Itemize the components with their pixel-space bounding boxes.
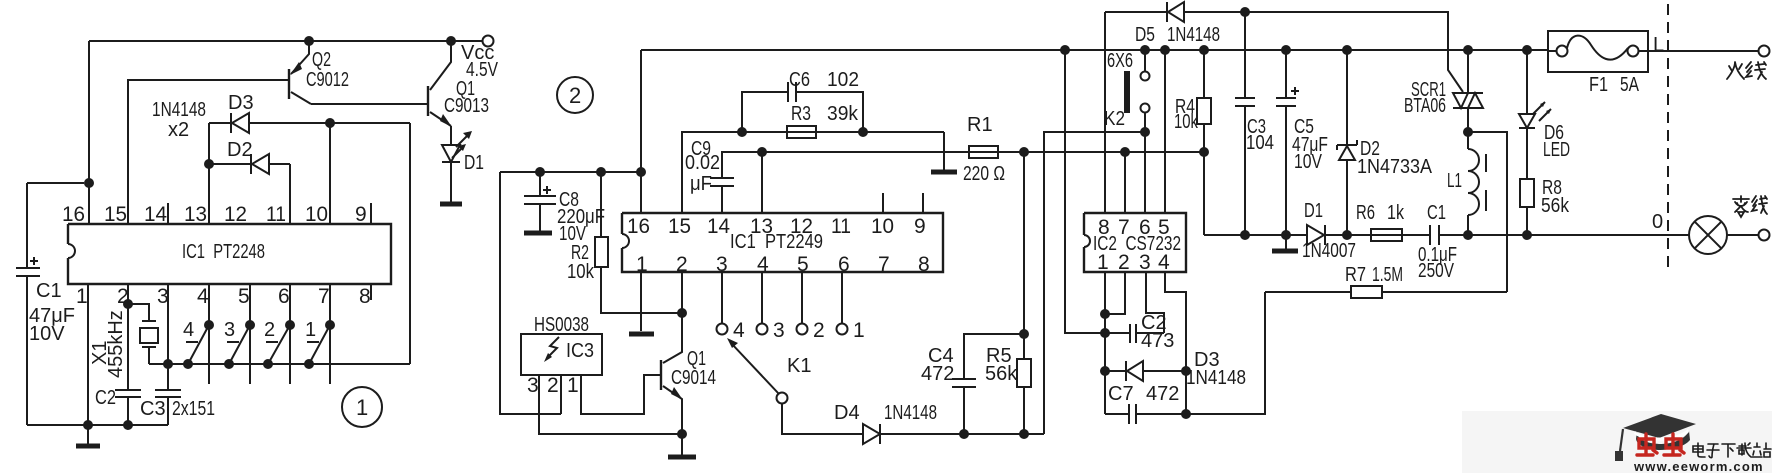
junction L1 bottom <box>1463 230 1473 240</box>
pin 14 stub <box>167 203 169 224</box>
svg-text:1N4733A: 1N4733A <box>1357 156 1433 178</box>
fuse F1 5A <box>1522 31 1648 96</box>
svg-text:7: 7 <box>1118 216 1130 239</box>
wire pin1 down <box>87 284 89 425</box>
junction R5 top <box>1019 147 1029 157</box>
junction pin1/D3 <box>1100 366 1110 376</box>
svg-text:7: 7 <box>878 253 890 276</box>
switch 2 <box>263 319 295 369</box>
wire pin3 drop <box>1146 272 1164 333</box>
svg-text:220 Ω: 220 Ω <box>963 163 1005 185</box>
svg-text:BTA06: BTA06 <box>1404 95 1446 117</box>
junction Q1 collector <box>446 36 456 46</box>
svg-text:x2: x2 <box>168 119 189 141</box>
wire pin4 drop <box>1165 272 1186 414</box>
pin 9 stub <box>922 193 924 213</box>
resistor R5 56k <box>985 152 1031 434</box>
resistor R3 39k <box>787 103 859 138</box>
resistor R8 56k <box>1520 177 1570 235</box>
svg-text:LED: LED <box>1543 139 1570 161</box>
junction K2 bottom <box>1140 127 1150 137</box>
svg-text:K2: K2 <box>1104 108 1125 130</box>
svg-text:3: 3 <box>773 319 785 342</box>
svg-text:472: 472 <box>1146 383 1179 405</box>
junction pin3/common <box>163 359 173 369</box>
switch K1 <box>727 338 811 404</box>
wire pin4 to terminal 3 <box>761 272 763 324</box>
svg-text:56k: 56k <box>985 363 1018 385</box>
label 零线 (neutral wire) <box>1733 196 1767 217</box>
capacitor C7 472 <box>1105 383 1265 424</box>
junction pin1/C2 <box>1100 328 1110 338</box>
wire pin11 riser <box>289 164 291 224</box>
junction pin13 <box>757 147 767 157</box>
svg-text:15: 15 <box>668 215 691 238</box>
wire bottom rail (transmitter) <box>27 424 168 426</box>
LED D6 <box>1519 50 1570 179</box>
wire pin2 drop <box>1105 272 1125 314</box>
wire IC3 pin2 left <box>560 375 562 414</box>
wire pin5 to terminal 2 <box>801 272 803 324</box>
junction C4 bottom <box>959 429 969 439</box>
svg-text:2: 2 <box>569 83 581 108</box>
inductor L1 <box>1447 132 1486 235</box>
diode D3 1N4148 <box>1105 349 1246 389</box>
junction pin2/R2 <box>677 308 687 318</box>
capacitor C2 473 <box>1105 312 1174 352</box>
svg-text:473: 473 <box>1141 330 1174 352</box>
junction C3 bottom <box>1240 230 1250 240</box>
wire D5 net <box>1105 12 1463 92</box>
wire IC3 pin3 to ground net <box>539 375 682 434</box>
svg-text:3: 3 <box>224 319 235 341</box>
wire pin6 down <box>289 284 291 384</box>
capacitor C2 <box>95 387 141 425</box>
capacitor C4 472 <box>921 334 1024 434</box>
svg-text:2: 2 <box>813 319 825 342</box>
circled 2 <box>557 77 593 113</box>
wire pin16 riser <box>88 41 90 224</box>
terminal 4 <box>717 324 728 335</box>
svg-text:11: 11 <box>266 203 286 226</box>
svg-text:1N4148: 1N4148 <box>152 99 206 121</box>
wire main top rail <box>641 49 1548 51</box>
svg-text:104: 104 <box>1246 132 1274 154</box>
terminal 1 <box>837 324 848 335</box>
svg-text:1: 1 <box>356 395 368 420</box>
wire K2 to D4 net riser <box>1044 132 1145 434</box>
svg-text:6: 6 <box>1139 216 1151 239</box>
LED D1 <box>442 126 484 202</box>
wire switch common <box>149 363 410 365</box>
ground (transmitter) <box>87 425 89 444</box>
svg-text:F1: F1 <box>1589 74 1608 96</box>
wire pin1 down to ground <box>640 272 642 331</box>
svg-text:4: 4 <box>183 319 194 341</box>
dashed boundary <box>1667 4 1669 272</box>
wire pin5 riser <box>1164 50 1166 213</box>
ground (Q1 C9014) <box>681 434 683 455</box>
svg-text:1: 1 <box>76 285 88 308</box>
svg-text:μF: μF <box>690 173 712 195</box>
switch 3 <box>224 319 255 369</box>
ground (C8) <box>524 231 552 236</box>
wire triac junction to R7 <box>1468 132 1507 292</box>
svg-text:10V: 10V <box>1294 151 1323 173</box>
svg-text:3: 3 <box>157 285 169 308</box>
svg-text:13: 13 <box>750 215 773 238</box>
junction K2 top <box>1140 45 1150 55</box>
svg-text:15: 15 <box>104 203 127 226</box>
svg-text:13: 13 <box>184 203 207 226</box>
svg-text:10: 10 <box>305 203 328 226</box>
svg-text:3: 3 <box>527 374 539 397</box>
svg-text:2: 2 <box>264 319 275 341</box>
wire lamp to neutral terminal <box>1727 234 1758 236</box>
key K2 6X6 <box>1104 50 1150 132</box>
wire fuse to L terminal <box>1648 50 1758 52</box>
svg-text:7: 7 <box>318 285 330 308</box>
wire pin7 down <box>329 284 331 384</box>
wire mains dc rail <box>1204 234 1689 236</box>
capacitor C8 <box>524 167 605 245</box>
junction pin16 <box>636 167 646 177</box>
svg-text:9: 9 <box>914 215 926 238</box>
junction pin1/ground <box>83 420 93 430</box>
svg-text:1: 1 <box>1097 251 1109 274</box>
wire pin7 riser <box>1124 152 1126 213</box>
svg-text:1N4148: 1N4148 <box>1167 24 1220 46</box>
junction C2 net top <box>1060 45 1070 55</box>
resistor R6 1k <box>1356 202 1405 241</box>
svg-text:5A: 5A <box>1620 74 1640 96</box>
diode D4 1N4148 <box>834 402 1044 444</box>
wire pin4 down <box>208 284 210 384</box>
terminal 3 <box>757 324 768 335</box>
wire pin3 to terminal 4 <box>721 272 723 324</box>
svg-text:D5: D5 <box>1135 24 1155 46</box>
svg-text:IC3: IC3 <box>566 340 594 362</box>
junction R5 bottom <box>1019 429 1029 439</box>
svg-text:8: 8 <box>918 253 930 276</box>
diode D3 1N4148 <box>209 92 410 133</box>
svg-text:C2: C2 <box>95 387 116 409</box>
wire pin13 riser <box>208 123 210 224</box>
wire left riser to IC3 pin2 <box>500 172 561 414</box>
ground (pin1 PT2249) <box>629 332 654 337</box>
svg-text:1: 1 <box>853 319 865 342</box>
terminal neutral <box>1759 230 1770 241</box>
svg-text:IC1 PT2248: IC1 PT2248 <box>182 241 265 263</box>
capacitor C1 0.1uF 250V <box>1418 202 1457 282</box>
svg-text:12: 12 <box>790 215 813 238</box>
svg-text:102: 102 <box>827 69 859 91</box>
junction Q1 emitter/ground <box>677 429 687 439</box>
switch 4 <box>183 319 214 369</box>
watermark strip <box>1462 411 1772 473</box>
svg-text:2: 2 <box>1118 251 1130 274</box>
svg-text:R3: R3 <box>791 103 811 125</box>
capacitor C6 102 <box>737 69 868 137</box>
wire 152 rail <box>762 151 1205 153</box>
capacitor C3 104 <box>1235 12 1274 235</box>
wire R7 left riser <box>1186 292 1265 414</box>
svg-text:D1: D1 <box>464 152 484 174</box>
wire pin15 riser to R3/C6 <box>682 132 944 213</box>
pin 8 stub <box>370 284 372 300</box>
svg-text:39k: 39k <box>827 103 859 125</box>
pin 9 stub <box>370 203 372 224</box>
svg-text:4: 4 <box>197 285 209 308</box>
wire pin2 down <box>127 284 129 390</box>
svg-text:C9013: C9013 <box>444 95 489 117</box>
svg-text:C1: C1 <box>36 280 62 302</box>
terminal live <box>1759 46 1770 57</box>
svg-text:R7: R7 <box>1345 264 1366 286</box>
transistor Q2 C9012 <box>289 41 349 104</box>
terminal 2 <box>797 324 808 335</box>
wire pin13 riser <box>761 152 763 213</box>
triac SCR1 BTA06 <box>1404 45 1483 132</box>
svg-text:5: 5 <box>238 285 250 308</box>
svg-text:0: 0 <box>1652 211 1663 233</box>
svg-text:C1: C1 <box>1427 202 1446 224</box>
svg-text:1: 1 <box>305 319 316 341</box>
capacitor C1 <box>16 183 84 425</box>
circled 1 <box>342 387 382 427</box>
svg-text:14: 14 <box>144 203 167 226</box>
svg-text:10k: 10k <box>567 261 595 283</box>
transistor Q1 C9014 <box>661 313 716 434</box>
svg-text:9: 9 <box>355 203 367 226</box>
svg-text:C6: C6 <box>789 69 810 91</box>
svg-text:1N4148: 1N4148 <box>884 402 937 424</box>
junction pin1/pin2 <box>1100 309 1110 319</box>
wire pin15 riser <box>128 80 289 224</box>
resistor R7 1.5M <box>1265 264 1507 298</box>
junction D3 right <box>1181 366 1191 376</box>
pin 10 stub <box>882 193 884 213</box>
svg-text:L1: L1 <box>1447 170 1462 192</box>
wire pin16 riser <box>640 50 642 213</box>
svg-text:1: 1 <box>567 374 579 397</box>
wire pin8 riser <box>1104 12 1106 213</box>
IC2 CS7232 body <box>1084 213 1186 272</box>
svg-text:D3: D3 <box>228 92 254 114</box>
wire K1 down to D4 <box>782 404 863 434</box>
svg-text:1.5M: 1.5M <box>1372 264 1403 286</box>
wire IC3 pin1 to Q1 base <box>581 375 661 414</box>
resistor R4 10k <box>1174 45 1211 235</box>
svg-text:56k: 56k <box>1541 195 1570 217</box>
wire D3 net right riser <box>409 123 411 364</box>
svg-text:1k: 1k <box>1387 202 1405 224</box>
svg-text:C9014: C9014 <box>671 367 716 389</box>
wire pin10 riser <box>329 123 331 224</box>
junction D3/pin10 <box>325 118 335 128</box>
svg-text:16: 16 <box>627 215 650 238</box>
junction D2 bottom <box>1342 230 1352 240</box>
junction Q2 emitter <box>304 36 314 46</box>
junction pin13/D2 <box>204 159 214 169</box>
svg-text:6: 6 <box>278 285 290 308</box>
lamp <box>1689 216 1727 254</box>
junction C7/R7 net <box>1181 409 1191 419</box>
svg-text:10: 10 <box>871 215 894 238</box>
svg-text:D2: D2 <box>227 139 253 161</box>
svg-text:3: 3 <box>1139 251 1151 274</box>
wire pin6 riser <box>1144 132 1146 213</box>
IR receiver IC3 HS0038 <box>521 314 602 397</box>
junction R8 bottom <box>1522 230 1532 240</box>
svg-text:2x151: 2x151 <box>172 398 215 420</box>
svg-text:8: 8 <box>359 285 371 308</box>
svg-text:C7: C7 <box>1108 383 1134 405</box>
svg-text:4: 4 <box>1158 251 1170 274</box>
terminal Vcc <box>483 36 494 47</box>
svg-text:2: 2 <box>547 374 559 397</box>
diode D1 1N4007 <box>1302 200 1356 262</box>
svg-text:1N4148: 1N4148 <box>1186 367 1246 389</box>
capacitor C5 47uF <box>1276 45 1328 235</box>
ground (R3/C6) <box>931 170 957 175</box>
wire Q2 collector to Q1 base <box>311 103 428 105</box>
wire C2 net riser <box>1065 50 1105 333</box>
svg-text:5: 5 <box>1158 216 1170 239</box>
diode D5 1N4148 <box>1135 2 1220 46</box>
svg-text:HS0038: HS0038 <box>534 314 589 336</box>
svg-text:16: 16 <box>62 203 85 226</box>
capacitor C9 0.02uF <box>685 138 762 213</box>
wire pin1 drop <box>1104 272 1106 414</box>
capacitor C3 <box>140 390 215 425</box>
junction triac/L1 <box>1463 127 1473 137</box>
diode D2 1N4148 <box>209 139 290 174</box>
svg-text:www.eeworm.com: www.eeworm.com <box>1633 459 1764 473</box>
ground (C5) <box>1285 235 1287 249</box>
svg-text:L: L <box>1653 34 1664 56</box>
ground (D1) <box>440 202 462 207</box>
svg-text:R6: R6 <box>1356 202 1375 224</box>
wire pin5 down <box>249 284 251 384</box>
svg-text:C3: C3 <box>140 398 166 420</box>
svg-text:C9012: C9012 <box>306 69 349 91</box>
wire pin2 down <box>681 272 683 352</box>
svg-text:455kHz: 455kHz <box>105 310 127 378</box>
svg-text:12: 12 <box>224 203 247 226</box>
svg-text:4: 4 <box>733 319 745 342</box>
watermark graduation cap logo <box>1615 414 1696 461</box>
junction pin16/C1 <box>84 178 94 188</box>
svg-text:D4: D4 <box>834 402 860 424</box>
transistor Q1 C9013 <box>428 41 489 127</box>
wire Vcc rail top-left <box>89 40 482 42</box>
wire pin6 to terminal 1 <box>841 272 843 324</box>
resistor R1 220ohm <box>963 114 1005 185</box>
svg-text:472: 472 <box>921 363 954 385</box>
junction R4/152 rail <box>1199 147 1209 157</box>
IC1 PT2248 body <box>68 224 391 284</box>
svg-text:D1: D1 <box>1304 200 1323 222</box>
svg-text:K1: K1 <box>787 355 811 377</box>
crystal X1 455kHz <box>89 304 168 378</box>
svg-text:10V: 10V <box>29 323 65 345</box>
wire 172 rail <box>500 171 641 173</box>
svg-text:R1: R1 <box>967 114 993 136</box>
svg-text:11: 11 <box>831 215 851 238</box>
zener D2 1N4733A <box>1337 45 1433 235</box>
watermark 虫虫 (red) <box>1637 434 1684 455</box>
wire R3 right to ground <box>943 132 945 172</box>
svg-text:6X6: 6X6 <box>1107 50 1133 72</box>
junction D5/C3 <box>1240 7 1250 17</box>
resistor R2 10k <box>567 167 682 313</box>
svg-text:10k: 10k <box>1174 111 1199 133</box>
svg-text:Q2: Q2 <box>312 49 331 71</box>
junction pin7 <box>1120 147 1130 157</box>
junction R5/C4 <box>1019 329 1029 339</box>
junction pin2/X1 <box>123 299 133 309</box>
watermark 电子下载站 <box>1693 443 1771 458</box>
switch 1 <box>304 319 335 369</box>
wire pin3 down <box>167 284 169 390</box>
junction C5 bottom <box>1281 230 1291 240</box>
svg-text:6: 6 <box>838 253 850 276</box>
label 火线 (live wire) <box>1727 62 1766 79</box>
IC1 PT2249 body <box>622 213 943 272</box>
junction pin2/C2 <box>123 420 133 430</box>
svg-text:8: 8 <box>1098 216 1110 239</box>
svg-text:0.02: 0.02 <box>685 152 720 174</box>
svg-text:1N4007: 1N4007 <box>1302 240 1356 262</box>
svg-text:250V: 250V <box>1418 260 1455 282</box>
svg-text:14: 14 <box>707 215 730 238</box>
junction pin5 top <box>1160 45 1170 55</box>
